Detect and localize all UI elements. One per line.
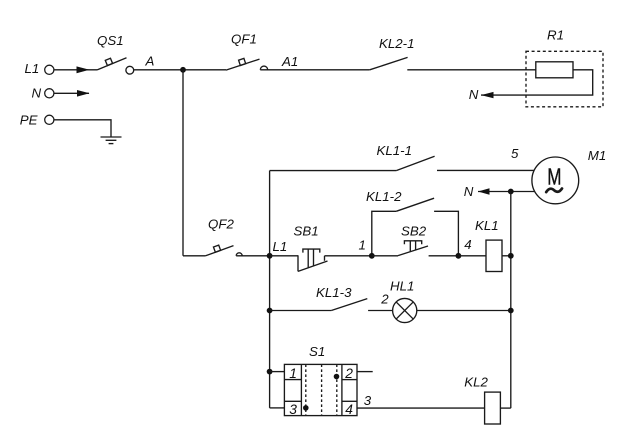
pushbutton SB2 — [372, 241, 459, 256]
node 4 dot — [456, 253, 462, 259]
resistor R1 — [536, 62, 573, 78]
svg-text:M: M — [547, 164, 561, 190]
wire S1 pin2 stub — [357, 371, 373, 373]
svg-text:QF1: QF1 — [231, 32, 257, 47]
svg-text:KL1-3: KL1-3 — [316, 285, 352, 300]
svg-text:N: N — [464, 184, 474, 199]
svg-text:A1: A1 — [281, 54, 298, 69]
node N motor dot — [508, 189, 514, 195]
wire KL1-1 row left — [270, 170, 397, 172]
node A dot — [180, 67, 186, 73]
svg-text:A: A — [145, 53, 155, 68]
terminal L1 — [45, 65, 54, 74]
arrow N motor — [478, 188, 490, 194]
svg-text:KL2-1: KL2-1 — [379, 36, 414, 51]
contact KL1-1 — [396, 156, 434, 170]
wire QF1 to KL2-1 — [260, 69, 369, 71]
switch QS1 — [98, 58, 134, 74]
breaker QF2 — [183, 245, 270, 256]
svg-text:SB2: SB2 — [401, 224, 427, 239]
svg-text:2: 2 — [380, 292, 389, 307]
terminal N — [45, 89, 54, 98]
wire left bus vertical — [269, 171, 271, 408]
arrow L1 — [77, 66, 90, 73]
pushbutton SB1 — [270, 249, 372, 271]
motor M1 — [532, 157, 579, 204]
wire S1 pin1 — [270, 371, 285, 373]
terminal PE — [45, 115, 54, 124]
svg-text:4: 4 — [464, 237, 471, 252]
wire KL1 coil to right bus — [502, 255, 511, 257]
breaker QF1 — [226, 58, 268, 70]
arrow N return R1 — [481, 92, 494, 98]
wire R1 to N return — [481, 70, 593, 95]
svg-text:KL1: KL1 — [475, 218, 499, 233]
wire node A vertical — [182, 70, 184, 256]
contact KL2-1 — [370, 57, 408, 69]
svg-text:M1: M1 — [588, 148, 606, 163]
contact KL1-2 — [372, 198, 459, 256]
wire motor N row — [478, 191, 535, 193]
svg-text:S1: S1 — [309, 344, 325, 359]
arrow N terminal — [77, 90, 90, 97]
wire S1 pin4 to KL2 — [357, 407, 485, 409]
ground — [101, 137, 122, 144]
svg-text:HL1: HL1 — [390, 278, 414, 293]
svg-text:N: N — [32, 86, 42, 101]
svg-text:3: 3 — [364, 393, 372, 408]
svg-text:QS1: QS1 — [97, 33, 124, 48]
coil KL2 — [485, 392, 501, 424]
wire QS1 to QF1 — [134, 69, 226, 71]
node S1 pin1 dot — [267, 369, 273, 375]
node L1 dot — [267, 253, 273, 259]
wire KL1-1 to motor — [437, 169, 534, 171]
contact KL1-3 — [270, 299, 368, 311]
switch S1 — [284, 364, 357, 417]
svg-text:2: 2 — [344, 366, 353, 381]
svg-text:R1: R1 — [547, 28, 564, 43]
svg-text:L1: L1 — [25, 61, 40, 76]
lamp HL1 — [393, 298, 417, 322]
svg-text:PE: PE — [20, 113, 38, 128]
svg-text:1: 1 — [289, 366, 297, 381]
svg-text:4: 4 — [345, 402, 353, 417]
node 1 dot — [369, 253, 375, 259]
wire N terminal — [54, 92, 89, 94]
wire L1 to QS1 — [54, 69, 98, 71]
wire HL1 to right bus — [417, 310, 511, 312]
svg-text:QF2: QF2 — [208, 217, 234, 232]
wire PE — [54, 120, 111, 137]
dashed enclosure R1 — [526, 51, 603, 107]
node KL1 right dot — [508, 253, 514, 259]
node HL1 right dot — [508, 308, 514, 314]
svg-text:3: 3 — [289, 402, 297, 417]
svg-text:SB1: SB1 — [294, 223, 319, 238]
svg-text:L1: L1 — [273, 239, 288, 254]
svg-text:KL2: KL2 — [464, 374, 488, 389]
svg-text:1: 1 — [359, 237, 366, 252]
node KL1-3 left dot — [267, 308, 273, 314]
wire right bus vertical — [510, 192, 512, 409]
svg-text:5: 5 — [511, 146, 519, 161]
coil KL1 — [486, 240, 502, 271]
wire S1 pin3 — [270, 407, 285, 409]
wire KL2-1 to R1 — [407, 69, 536, 71]
svg-text:N: N — [469, 87, 479, 102]
wire KL2 to right bus — [500, 407, 510, 409]
wire KL1-3 to HL1 — [368, 310, 393, 312]
wire node4 to KL1 coil — [458, 255, 486, 257]
svg-text:KL1-1: KL1-1 — [377, 143, 412, 158]
svg-text:KL1-2: KL1-2 — [366, 189, 402, 204]
